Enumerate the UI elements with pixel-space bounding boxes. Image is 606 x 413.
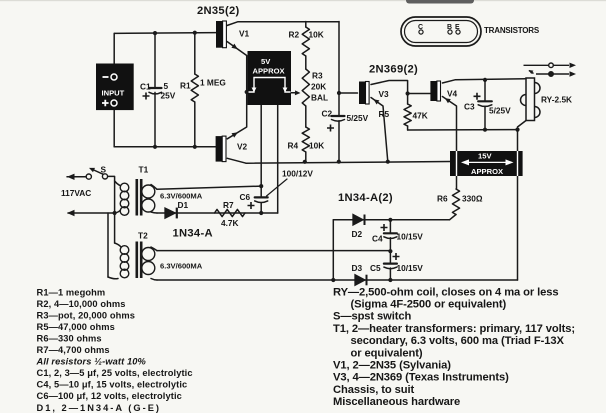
svg-text:C1: C1 bbox=[140, 82, 151, 92]
svg-text:B: B bbox=[447, 24, 452, 31]
svg-text:D1: D1 bbox=[178, 200, 189, 210]
svg-text:Miscellaneous hardware: Miscellaneous hardware bbox=[333, 396, 460, 408]
svg-text:10K: 10K bbox=[309, 30, 324, 40]
svg-text:RY—2,500-ohm coil, closes on 4: RY—2,500-ohm coil, closes on 4 ma or les… bbox=[333, 286, 559, 298]
svg-text:C3: C3 bbox=[464, 102, 475, 112]
svg-text:5V: 5V bbox=[261, 57, 271, 66]
svg-text:T1, 2—heater transformers: pri: T1, 2—heater transformers: primary, 117 … bbox=[333, 323, 575, 335]
svg-text:25V: 25V bbox=[161, 91, 176, 101]
svg-text:10K: 10K bbox=[309, 141, 324, 151]
svg-text:10/15V: 10/15V bbox=[397, 263, 424, 273]
svg-text:APPROX: APPROX bbox=[253, 67, 285, 76]
svg-text:R7—4,700 ohms: R7—4,700 ohms bbox=[37, 345, 110, 355]
svg-text:BAL: BAL bbox=[311, 93, 328, 103]
svg-text:V1: V1 bbox=[239, 29, 250, 39]
svg-text:R2: R2 bbox=[289, 30, 300, 40]
svg-text:R2, 4—10,000 ohms: R2, 4—10,000 ohms bbox=[37, 299, 126, 309]
svg-text:15V: 15V bbox=[478, 152, 492, 161]
svg-text:C6: C6 bbox=[240, 192, 251, 202]
svg-text:117VAC: 117VAC bbox=[61, 188, 91, 198]
svg-text:C4: C4 bbox=[372, 234, 383, 244]
svg-text:RY-2.5K: RY-2.5K bbox=[541, 95, 572, 105]
svg-text:C5: C5 bbox=[370, 263, 381, 273]
svg-text:INPUT: INPUT bbox=[102, 89, 125, 98]
svg-text:V2: V2 bbox=[237, 142, 248, 152]
svg-text:R6—330 ohms: R6—330 ohms bbox=[37, 334, 102, 344]
svg-text:20K: 20K bbox=[311, 82, 326, 92]
svg-text:E: E bbox=[455, 24, 460, 31]
svg-text:TRANSISTORS: TRANSISTORS bbox=[484, 26, 540, 35]
svg-text:S—spst switch: S—spst switch bbox=[333, 311, 412, 323]
svg-text:5/25V: 5/25V bbox=[347, 113, 369, 123]
svg-text:100/12V: 100/12V bbox=[282, 169, 313, 179]
svg-text:D3: D3 bbox=[352, 263, 363, 273]
svg-text:V4: V4 bbox=[447, 89, 458, 99]
svg-text:or equivalent): or equivalent) bbox=[351, 347, 423, 359]
svg-text:R1: R1 bbox=[180, 81, 191, 91]
svg-text:10/15V: 10/15V bbox=[397, 232, 424, 242]
svg-text:R7: R7 bbox=[223, 200, 234, 210]
svg-text:6.3V/600MA: 6.3V/600MA bbox=[160, 262, 203, 271]
svg-text:R4: R4 bbox=[288, 141, 299, 151]
svg-text:1N34-A(2): 1N34-A(2) bbox=[338, 192, 393, 204]
svg-text:R3—pot, 20,000 ohms: R3—pot, 20,000 ohms bbox=[37, 310, 136, 320]
svg-text:C2: C2 bbox=[322, 109, 333, 119]
svg-text:V3: V3 bbox=[379, 89, 390, 99]
svg-text:R3: R3 bbox=[312, 71, 323, 81]
svg-text:330Ω: 330Ω bbox=[462, 194, 483, 204]
svg-text:2N35(2): 2N35(2) bbox=[197, 5, 240, 17]
svg-text:R6: R6 bbox=[437, 194, 448, 204]
svg-text:T1: T1 bbox=[139, 165, 149, 175]
svg-text:D1, 2—1N34-A (G-E): D1, 2—1N34-A (G-E) bbox=[37, 403, 162, 413]
svg-text:S: S bbox=[101, 165, 107, 175]
svg-text:C4, 5—10 μf, 15 volts, electro: C4, 5—10 μf, 15 volts, electrolytic bbox=[37, 380, 188, 390]
svg-text:V3, 4—2N369 (Texas Instruments: V3, 4—2N369 (Texas Instruments) bbox=[333, 372, 509, 384]
svg-text:47K: 47K bbox=[413, 111, 428, 121]
svg-text:1 MEG: 1 MEG bbox=[200, 78, 226, 88]
svg-text:V1, 2—2N35 (Sylvania): V1, 2—2N35 (Sylvania) bbox=[333, 360, 451, 372]
svg-text:(Sigma 4F-2500 or equivalent): (Sigma 4F-2500 or equivalent) bbox=[351, 299, 507, 311]
svg-text:T2: T2 bbox=[138, 231, 148, 241]
svg-text:C1, 2, 3—5 μf, 25 volts, elect: C1, 2, 3—5 μf, 25 volts, electrolytic bbox=[37, 368, 193, 378]
svg-text:2N369(2): 2N369(2) bbox=[369, 64, 418, 76]
svg-text:Chassis, to suit: Chassis, to suit bbox=[333, 384, 414, 396]
svg-text:All resistors ½-watt 10%: All resistors ½-watt 10% bbox=[36, 357, 146, 367]
svg-text:C: C bbox=[418, 24, 423, 31]
svg-text:secondary, 6.3 volts, 600 ma (: secondary, 6.3 volts, 600 ma (Triad F-13… bbox=[351, 335, 565, 347]
svg-text:6.3V/600MA: 6.3V/600MA bbox=[160, 192, 203, 201]
svg-text:D2: D2 bbox=[352, 229, 363, 239]
svg-text:R1—1 megohm: R1—1 megohm bbox=[37, 287, 106, 297]
svg-text:C6—100 μf, 12 volts, electroly: C6—100 μf, 12 volts, electrolytic bbox=[37, 391, 182, 401]
svg-text:1N34-A: 1N34-A bbox=[173, 228, 213, 240]
svg-text:APPROX: APPROX bbox=[471, 167, 503, 176]
svg-text:R5—47,000 ohms: R5—47,000 ohms bbox=[37, 322, 115, 332]
svg-text:R5: R5 bbox=[379, 109, 390, 119]
svg-text:5/25V: 5/25V bbox=[489, 106, 511, 116]
svg-text:5: 5 bbox=[164, 81, 169, 91]
svg-text:4.7K: 4.7K bbox=[221, 218, 239, 228]
